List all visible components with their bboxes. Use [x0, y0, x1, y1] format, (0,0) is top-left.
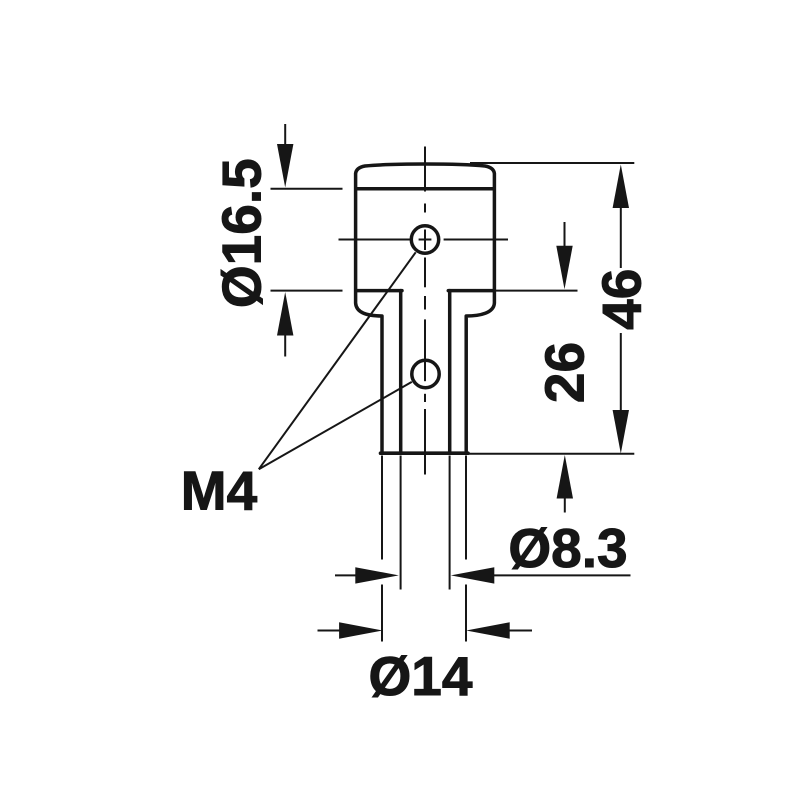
svg-text:46: 46	[591, 269, 653, 330]
svg-text:26: 26	[534, 342, 596, 403]
svg-text:Ø16.5: Ø16.5	[211, 158, 273, 308]
svg-text:M4: M4	[181, 460, 258, 522]
svg-text:Ø8.3: Ø8.3	[508, 517, 627, 579]
svg-text:Ø14: Ø14	[369, 645, 473, 707]
